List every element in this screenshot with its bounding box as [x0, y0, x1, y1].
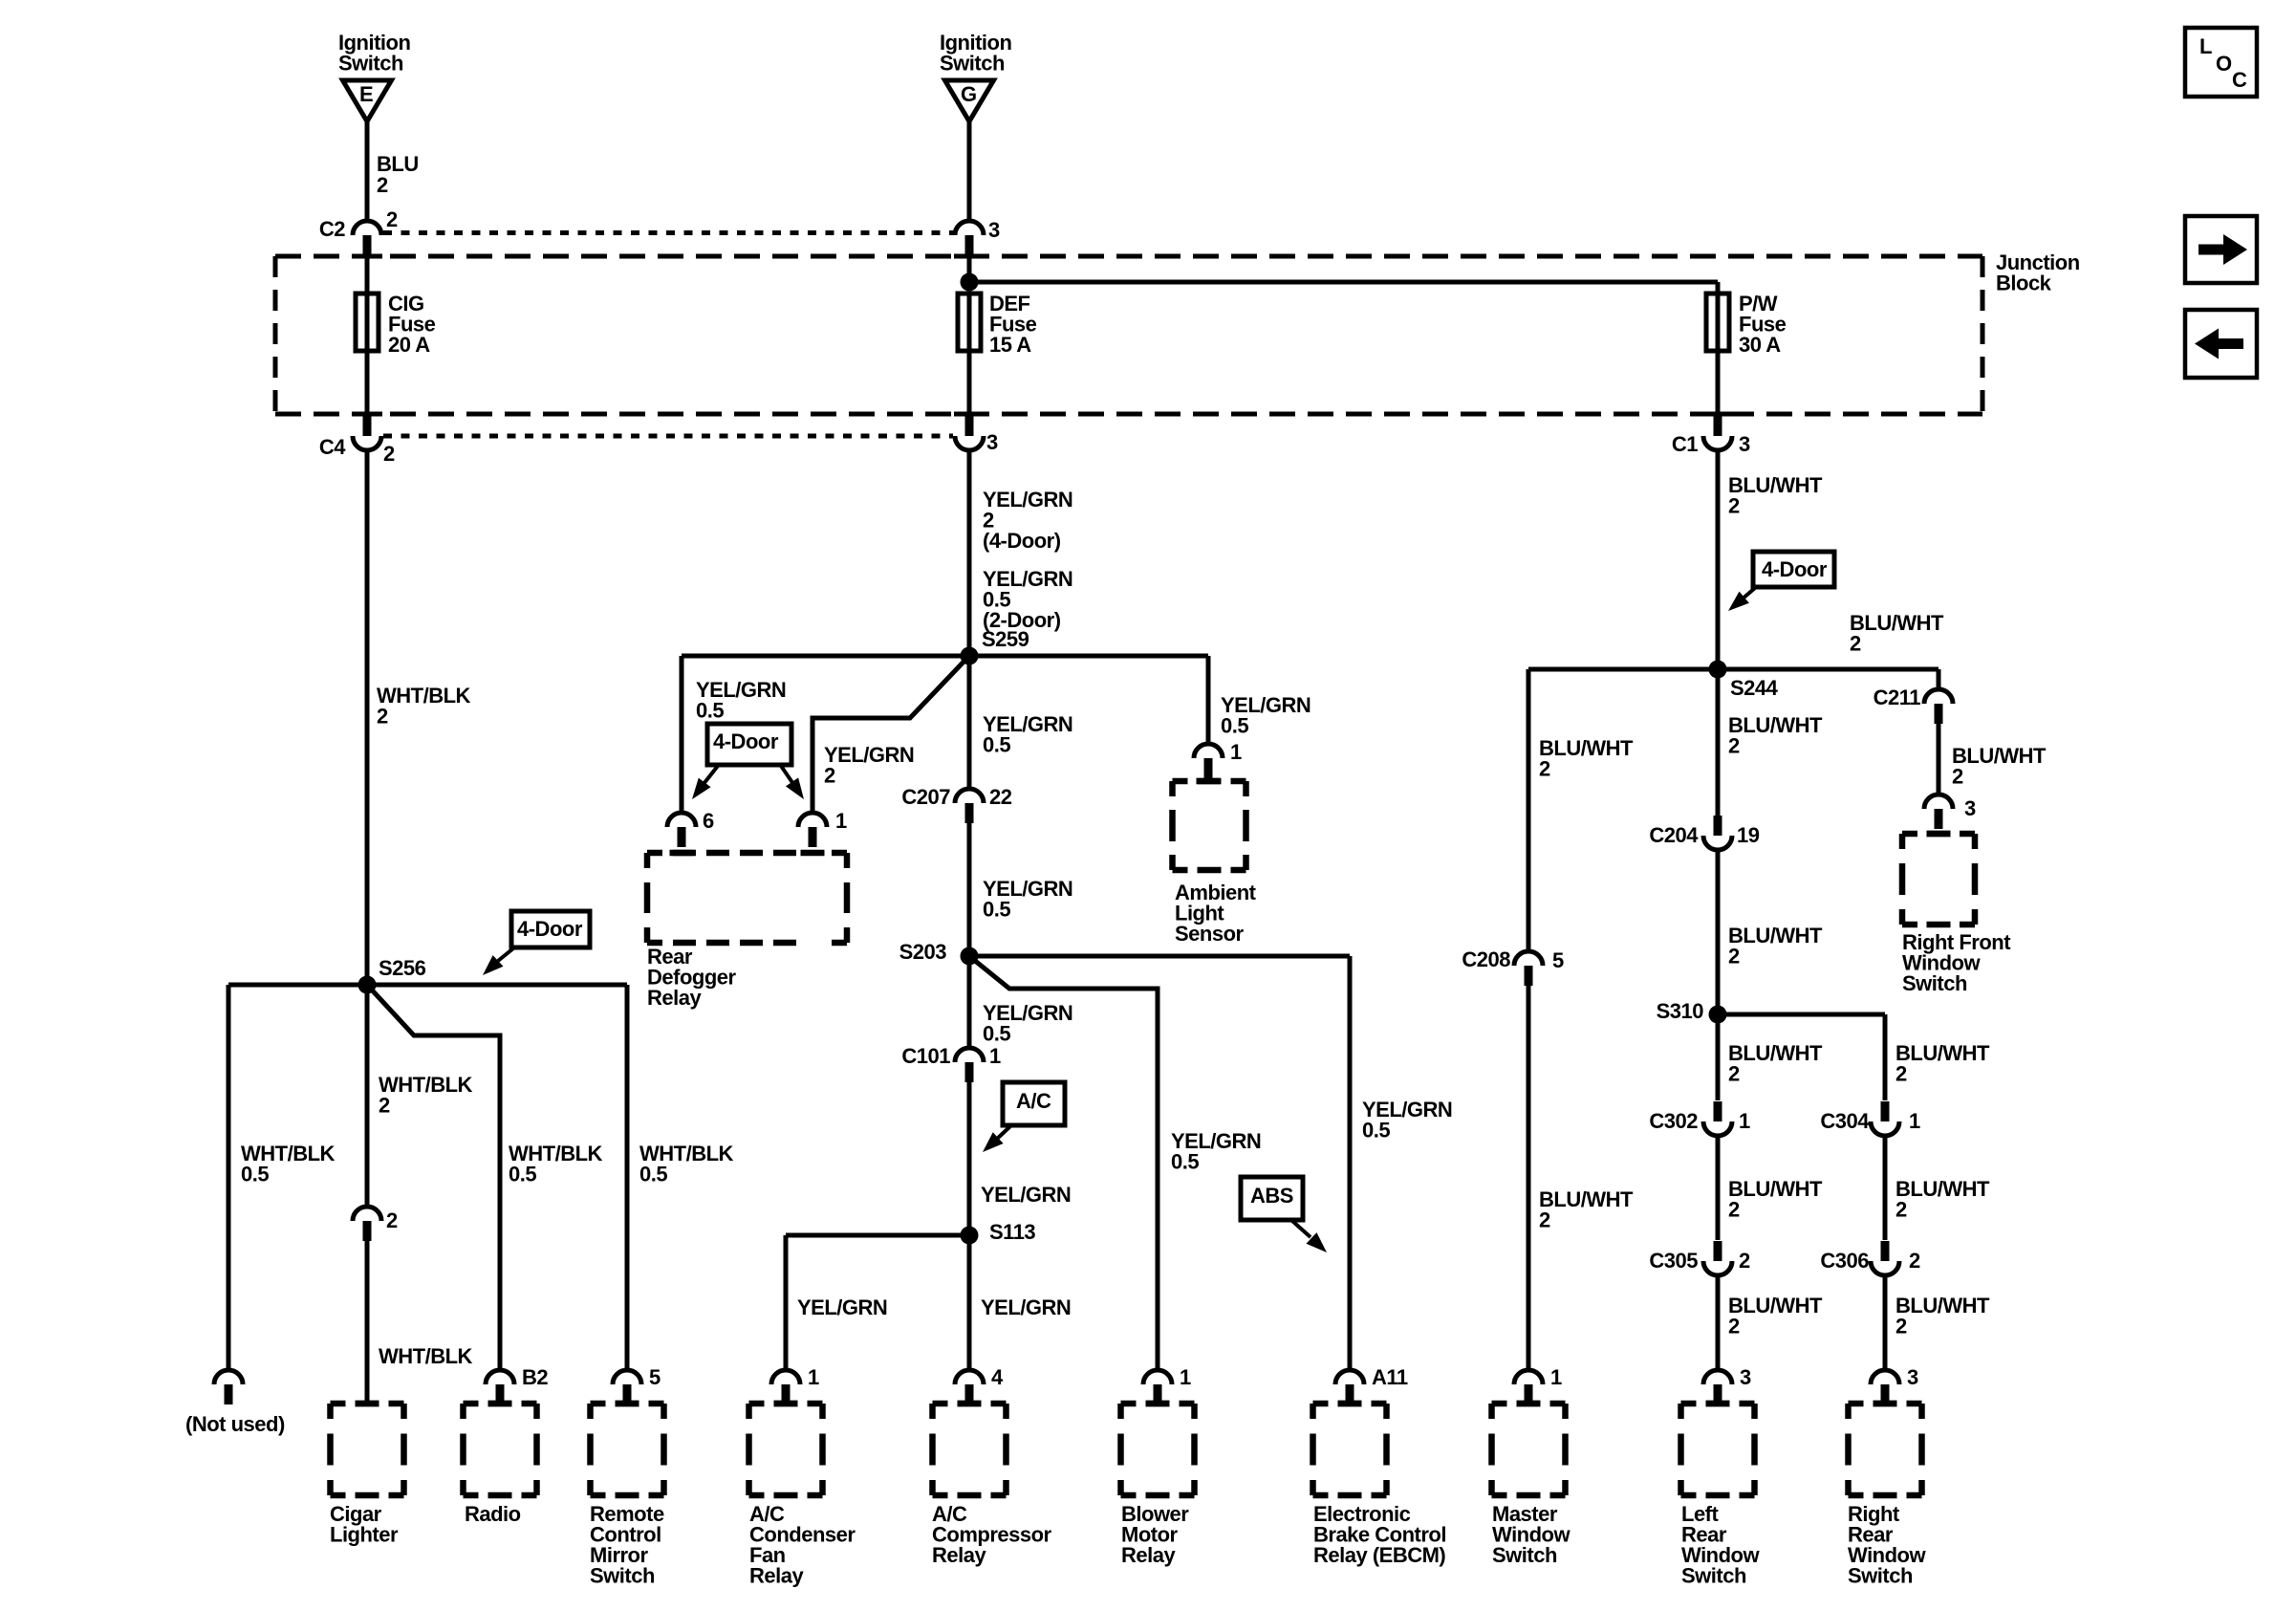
svg-text:YEL/GRN: YEL/GRN [981, 1183, 1071, 1207]
svg-text:BLU/WHT: BLU/WHT [1850, 611, 1944, 635]
svg-text:5: 5 [1552, 948, 1564, 972]
svg-text:WHT/BLK: WHT/BLK [379, 1344, 473, 1368]
svg-text:6: 6 [703, 809, 714, 833]
svg-text:S203: S203 [899, 940, 947, 964]
svg-text:S259: S259 [982, 627, 1029, 651]
svg-text:WHT/BLK: WHT/BLK [379, 1073, 473, 1097]
svg-text:1: 1 [1230, 740, 1242, 764]
svg-text:Switch: Switch [1848, 1564, 1913, 1588]
svg-text:C204: C204 [1649, 823, 1699, 847]
svg-text:Relay: Relay [1121, 1543, 1176, 1567]
svg-text:BLU/WHT: BLU/WHT [1728, 713, 1823, 737]
svg-text:0.5: 0.5 [1171, 1150, 1199, 1174]
svg-text:1: 1 [989, 1044, 1001, 1068]
svg-text:2: 2 [1728, 1062, 1740, 1086]
svg-text:4: 4 [991, 1365, 1004, 1389]
svg-text:WHT/BLK: WHT/BLK [377, 684, 471, 708]
svg-text:S310: S310 [1657, 999, 1704, 1023]
svg-text:2: 2 [1539, 757, 1550, 781]
svg-text:2: 2 [1952, 765, 1963, 789]
svg-text:20 A: 20 A [388, 333, 430, 357]
svg-text:4-Door: 4-Door [1762, 557, 1828, 581]
svg-text:E: E [359, 82, 373, 106]
svg-text:2: 2 [379, 1094, 390, 1118]
svg-text:0.5: 0.5 [639, 1163, 667, 1186]
svg-text:G: G [961, 82, 977, 106]
svg-text:ABS: ABS [1250, 1184, 1293, 1208]
svg-text:3: 3 [1740, 1365, 1751, 1389]
svg-text:(Not used): (Not used) [185, 1412, 285, 1436]
svg-text:O: O [2216, 52, 2232, 76]
svg-text:1: 1 [835, 809, 847, 833]
svg-text:22: 22 [989, 785, 1012, 809]
svg-text:19: 19 [1737, 823, 1760, 847]
svg-text:2: 2 [1728, 734, 1740, 758]
svg-text:Relay: Relay [749, 1564, 804, 1588]
svg-text:A/C: A/C [1016, 1089, 1051, 1113]
svg-text:3: 3 [1739, 432, 1750, 456]
svg-text:YEL/GRN: YEL/GRN [981, 1295, 1071, 1319]
svg-text:2: 2 [1539, 1208, 1550, 1232]
svg-text:BLU/WHT: BLU/WHT [1728, 1177, 1823, 1201]
svg-text:5: 5 [649, 1365, 661, 1389]
svg-text:2: 2 [1728, 494, 1740, 518]
svg-text:C302: C302 [1649, 1109, 1698, 1133]
svg-text:L: L [2199, 34, 2212, 58]
svg-text:Switch: Switch [590, 1564, 655, 1588]
svg-text:4-Door: 4-Door [713, 729, 779, 753]
svg-text:3: 3 [986, 430, 998, 454]
svg-text:0.5: 0.5 [983, 898, 1010, 922]
svg-text:C208: C208 [1462, 947, 1510, 971]
svg-text:0.5: 0.5 [983, 1022, 1010, 1046]
svg-text:Radio: Radio [465, 1502, 521, 1526]
svg-text:S256: S256 [379, 956, 426, 980]
svg-text:BLU/WHT: BLU/WHT [1895, 1041, 1990, 1065]
svg-text:0.5: 0.5 [1362, 1119, 1390, 1143]
svg-text:C1: C1 [1672, 432, 1698, 456]
svg-text:2: 2 [1739, 1249, 1750, 1273]
svg-text:Relay: Relay [647, 986, 702, 1010]
svg-text:0.5: 0.5 [696, 699, 724, 723]
svg-text:1: 1 [1909, 1109, 1920, 1133]
svg-text:0.5: 0.5 [1221, 714, 1248, 738]
svg-text:(4-Door): (4-Door) [983, 529, 1061, 553]
svg-text:YEL/GRN: YEL/GRN [797, 1295, 887, 1319]
svg-text:Switch: Switch [940, 52, 1005, 76]
svg-text:2: 2 [1850, 632, 1861, 656]
svg-text:BLU/WHT: BLU/WHT [1728, 1294, 1823, 1317]
svg-text:S113: S113 [989, 1220, 1035, 1244]
svg-text:A11: A11 [1372, 1365, 1408, 1389]
svg-text:BLU/WHT: BLU/WHT [1728, 924, 1823, 947]
svg-text:2: 2 [1728, 945, 1740, 969]
svg-text:B2: B2 [522, 1365, 548, 1389]
svg-text:BLU/WHT: BLU/WHT [1895, 1177, 1990, 1201]
svg-text:S244: S244 [1730, 676, 1779, 700]
svg-text:2: 2 [1728, 1315, 1740, 1339]
svg-text:1: 1 [1739, 1109, 1750, 1133]
svg-text:Switch: Switch [1902, 971, 1967, 995]
svg-text:C2: C2 [319, 217, 345, 241]
svg-text:C304: C304 [1820, 1109, 1870, 1133]
svg-text:0.5: 0.5 [983, 733, 1010, 757]
svg-text:BLU/WHT: BLU/WHT [1728, 1041, 1823, 1065]
svg-text:1: 1 [1550, 1365, 1562, 1389]
svg-text:Sensor: Sensor [1175, 922, 1245, 946]
svg-text:C306: C306 [1820, 1249, 1869, 1273]
svg-text:BLU/WHT: BLU/WHT [1728, 473, 1823, 497]
svg-text:BLU/WHT: BLU/WHT [1895, 1294, 1990, 1317]
svg-text:C305: C305 [1649, 1249, 1698, 1273]
svg-text:Relay (EBCM): Relay (EBCM) [1313, 1543, 1445, 1567]
svg-text:1: 1 [1180, 1365, 1191, 1389]
svg-text:YEL/GRN: YEL/GRN [983, 488, 1072, 512]
svg-text:Switch: Switch [1681, 1564, 1746, 1588]
svg-text:Lighter: Lighter [330, 1523, 399, 1547]
svg-text:0.5: 0.5 [509, 1163, 536, 1186]
svg-text:C4: C4 [319, 435, 346, 459]
svg-text:0.5: 0.5 [241, 1163, 269, 1186]
svg-text:Switch: Switch [1492, 1543, 1557, 1567]
svg-text:BLU/WHT: BLU/WHT [1952, 744, 2047, 768]
svg-text:15 A: 15 A [989, 333, 1031, 357]
svg-text:YEL/GRN: YEL/GRN [824, 743, 914, 767]
svg-text:2: 2 [377, 705, 388, 729]
svg-text:Relay: Relay [932, 1543, 986, 1567]
svg-text:C: C [2232, 68, 2247, 92]
svg-text:C101: C101 [901, 1044, 950, 1068]
svg-text:2: 2 [386, 1208, 398, 1232]
svg-text:2: 2 [1728, 1198, 1740, 1222]
svg-text:2: 2 [383, 442, 395, 466]
svg-text:3: 3 [1964, 796, 1976, 820]
svg-text:3: 3 [1907, 1365, 1918, 1389]
svg-text:2: 2 [1895, 1315, 1907, 1339]
svg-text:3: 3 [988, 218, 1000, 242]
svg-text:1: 1 [808, 1365, 819, 1389]
svg-text:C207: C207 [901, 785, 950, 809]
svg-text:C211: C211 [1874, 686, 1921, 709]
svg-text:2: 2 [377, 173, 388, 197]
svg-text:2: 2 [1909, 1249, 1920, 1273]
svg-text:2: 2 [1895, 1062, 1907, 1086]
svg-text:2: 2 [824, 764, 835, 788]
svg-text:Block: Block [1996, 272, 2052, 295]
svg-text:4-Door: 4-Door [517, 917, 583, 941]
svg-text:2: 2 [386, 207, 398, 231]
svg-text:BLU/WHT: BLU/WHT [1539, 736, 1634, 760]
svg-text:2: 2 [1895, 1198, 1907, 1222]
svg-text:BLU/WHT: BLU/WHT [1539, 1187, 1634, 1211]
svg-text:30 A: 30 A [1739, 333, 1781, 357]
svg-text:Switch: Switch [338, 52, 403, 76]
